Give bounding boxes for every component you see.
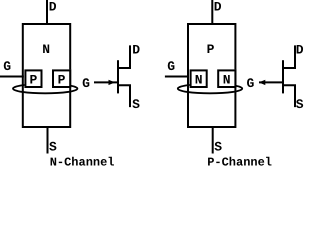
wire: gate lead of N-channel block — [0, 76, 24, 78]
wire: drain lead of P-channel block — [211, 0, 213, 25]
P gate region box left (N-block) — [25, 70, 41, 87]
p-channel JFET symbol: source wire — [283, 85, 295, 107]
svg-text:N: N — [42, 42, 50, 57]
p-channel JFET symbol: gate arrowhead — [259, 80, 266, 85]
svg-text:P: P — [58, 73, 66, 88]
svg-text:S: S — [296, 97, 304, 112]
wire: source lead of N-channel block — [47, 127, 49, 154]
P gate region box right (N-block) — [53, 70, 70, 87]
svg-text:G: G — [82, 76, 90, 91]
svg-text:N: N — [195, 73, 203, 88]
svg-text:S: S — [214, 140, 222, 155]
P-type body rectangle — [188, 24, 235, 127]
n-channel JFET symbol: drain wire — [118, 45, 130, 68]
p-channel JFET symbol: gate wire — [259, 81, 282, 83]
svg-text:G: G — [167, 59, 175, 74]
n-channel JFET symbol: source wire — [118, 85, 130, 107]
N-type body rectangle — [23, 24, 70, 127]
svg-text:D: D — [296, 42, 304, 57]
svg-text:P-Channel: P-Channel — [207, 156, 272, 166]
p-channel JFET symbol: drain wire — [283, 45, 295, 68]
n-channel JFET symbol: channel bar — [117, 60, 119, 93]
white mask over gate region (P-block) — [190, 69, 236, 88]
svg-text:G: G — [247, 76, 255, 91]
p-channel JFET symbol: channel bar — [282, 60, 284, 93]
N gate region box right (P-block) — [218, 70, 235, 87]
wire: source lead of P-channel block — [212, 127, 214, 154]
wire: drain lead of N-channel block — [46, 0, 48, 25]
white mask over gate region (N-block) — [24, 69, 70, 88]
svg-text:N: N — [223, 73, 231, 88]
depletion region ellipse (P-block) — [178, 84, 242, 93]
n-channel JFET symbol: gate wire — [94, 81, 117, 83]
svg-text:G: G — [3, 59, 11, 74]
wire: gate lead of P-channel block — [165, 76, 189, 78]
svg-text:S: S — [49, 140, 57, 155]
n-channel JFET symbol: gate arrowhead — [109, 80, 116, 85]
svg-text:D: D — [49, 0, 57, 14]
svg-text:N-Channel: N-Channel — [50, 156, 115, 166]
svg-text:S: S — [132, 97, 140, 112]
svg-text:P: P — [30, 73, 38, 88]
svg-text:P: P — [207, 42, 215, 57]
depletion region ellipse (N-block) — [13, 84, 77, 93]
svg-text:D: D — [132, 42, 140, 57]
N gate region box left (P-block) — [191, 70, 207, 87]
svg-text:D: D — [214, 0, 222, 14]
